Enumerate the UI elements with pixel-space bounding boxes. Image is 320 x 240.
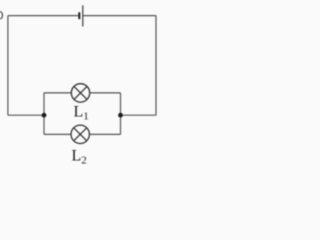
wire right bus of parallel section [120,93,122,134]
lamp L2 cross stroke 1 [74,128,87,141]
wire bottom feed (left rail to junction A) [8,114,44,116]
wire top branch left (bus to lamp L1) [44,92,71,94]
wire right vertical rail [155,16,157,116]
wire left vertical rail [7,16,9,116]
wire output (junction B to right rail) [121,114,157,116]
wire bottom branch right (lamp L2 to bus) [89,133,120,135]
wire top branch right (lamp L1 to bus) [90,92,121,94]
battery cell: long thin positive plate [82,5,84,26]
junction node A (left) [42,113,47,118]
junction node B (right) [118,113,123,118]
lamp L2 circle [71,125,89,143]
wire top-left (from left rail to battery negative plate) [8,15,79,17]
lamp L2 cross stroke 2 [74,128,87,141]
wire bottom branch left (bus to lamp L2) [44,133,71,135]
lamp L1 cross stroke 1 [74,86,87,99]
lamp L1 cross stroke 2 [74,86,87,99]
figure label arc (partial circled label at left edge) [0,11,3,19]
wire left bus of parallel section [43,93,45,134]
lamp L1 circle [71,84,89,102]
wire top-right (from battery positive plate to right rail) [83,15,156,17]
battery cell: short thick negative plate [78,12,80,19]
